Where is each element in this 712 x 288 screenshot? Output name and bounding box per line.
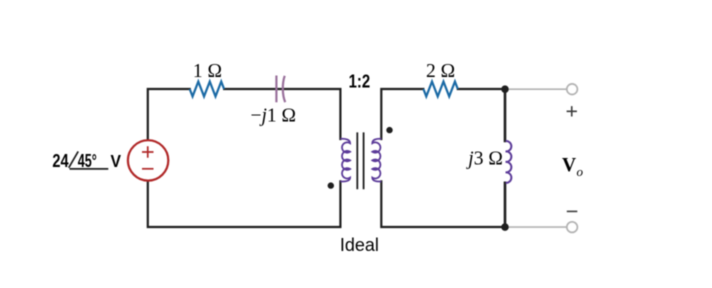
svg-text:24: 24 [52,151,68,171]
svg-text:Ideal: Ideal [340,235,379,255]
svg-text:o: o [577,164,584,179]
svg-text:−j1 Ω: −j1 Ω [251,105,297,126]
svg-text:1 Ω: 1 Ω [193,61,222,82]
svg-text:45°: 45° [78,151,97,171]
svg-text:2 Ω: 2 Ω [426,61,455,82]
svg-text:V: V [562,155,576,176]
svg-text:V: V [111,151,122,171]
svg-text:j3 Ω: j3 Ω [465,149,503,170]
svg-text:1:2: 1:2 [349,72,371,92]
